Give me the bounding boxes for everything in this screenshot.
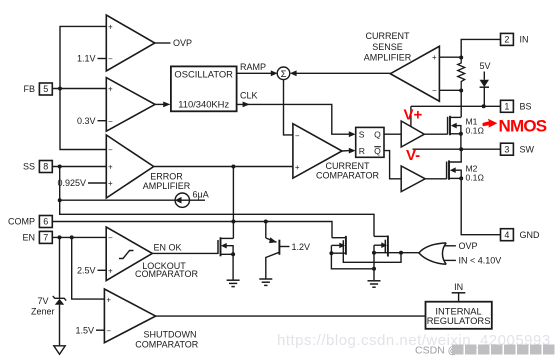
node COMP junction (231, 220, 235, 224)
transistor Q2 PNP 1.2V clamp (266, 222, 310, 279)
svg-text:ERROR: ERROR (150, 172, 183, 182)
current sense amplifier U7 (364, 31, 440, 101)
node PNP emitter junction (264, 220, 268, 224)
svg-text:+: + (108, 85, 113, 94)
svg-text:SHUTDOWN: SHUTDOWN (144, 329, 197, 339)
node EN junction zener (58, 235, 62, 239)
pin SS 8 (23, 161, 52, 173)
ground (227, 280, 240, 286)
pin COMP 6 (8, 216, 52, 228)
summing junction sigma (277, 67, 290, 80)
svg-text:COMP: COMP (8, 217, 35, 227)
svg-text:R: R (359, 146, 365, 156)
current source I1 6uA (175, 190, 209, 208)
wire EN to shutdown plus (72, 237, 105, 299)
transistor Q1 lockout pulldown (218, 237, 235, 279)
svg-text:−: − (108, 234, 113, 243)
ground (368, 281, 381, 287)
wire M1 source to SW rail (460, 134, 462, 149)
node diode BS junction (482, 104, 486, 108)
svg-text:CSDN @: CSDN @ (415, 345, 458, 357)
svg-text:4: 4 (504, 230, 509, 240)
svg-text:−: − (108, 55, 113, 64)
svg-text:SENSE: SENSE (372, 42, 403, 52)
svg-text:IN: IN (520, 35, 529, 45)
svg-text:CLK: CLK (240, 90, 258, 100)
wire FB to error amp minus (60, 89, 106, 150)
svg-text:0.1Ω: 0.1Ω (466, 126, 485, 136)
wire error amp output down to COMP line and pulldown drain (232, 167, 234, 239)
svg-text:Q: Q (374, 130, 381, 140)
wire CSA plus to sense resistor top (439, 56, 461, 58)
wire shutdown output to internal regulators (156, 315, 426, 317)
svg-text:AMPLIFIER: AMPLIFIER (143, 181, 191, 191)
annotation NMOS arrow (483, 119, 498, 128)
pin BS 1 (501, 100, 532, 112)
transistor Q4 cross pair right (372, 236, 403, 281)
svg-text:NMOS: NMOS (499, 117, 547, 136)
pin FB 5 (23, 83, 52, 95)
comparator U2 oscillator-enable (106, 78, 155, 132)
current comparator U5 (293, 124, 380, 181)
svg-text:+: + (108, 163, 113, 172)
value 1.5V (75, 325, 104, 335)
svg-text:2: 2 (504, 35, 509, 45)
ground negative rail arrow (54, 346, 65, 355)
oscillator U3 (171, 66, 237, 111)
svg-text:SW: SW (520, 144, 535, 154)
svg-text:CURRENT: CURRENT (326, 161, 371, 171)
svg-text:+: + (432, 53, 437, 62)
wire OR input OVP (444, 245, 456, 247)
svg-text:2.5V: 2.5V (77, 266, 96, 276)
svg-text:6: 6 (43, 217, 48, 227)
wire EN OK output to Q1 gate (152, 252, 218, 254)
svg-text:AMPLIFIER: AMPLIFIER (364, 52, 412, 62)
node EN junction shutdown (70, 235, 74, 239)
gate U10 OR (419, 243, 446, 264)
wire Q3 gate cross-couple (343, 251, 401, 263)
pin SW 3 (501, 143, 535, 155)
driver U8 high-side (401, 121, 424, 147)
wire RAMP (237, 62, 278, 76)
resistor R1 sense (458, 58, 465, 91)
svg-text:+: + (108, 179, 113, 188)
error amplifier U4 (106, 135, 190, 198)
transistor M1 (448, 116, 485, 136)
svg-text:COMPARATOR: COMPARATOR (316, 171, 380, 181)
svg-text:FB: FB (23, 84, 35, 94)
latch U6 SR (356, 127, 384, 157)
ground (259, 279, 272, 285)
svg-text:3: 3 (504, 144, 509, 154)
node IN supply tap (452, 282, 466, 302)
wire CLK (237, 90, 356, 137)
svg-text:6μA: 6μA (193, 190, 209, 200)
svg-text:OVP: OVP (173, 38, 192, 48)
wire EN pin to lockout minus (52, 236, 106, 238)
internal regulators U13 (426, 302, 492, 329)
wire FB pin to U2+ (52, 88, 106, 90)
diode D1 5V to BS (480, 72, 489, 107)
svg-text:COMPARATOR: COMPARATOR (135, 269, 199, 279)
svg-text:+: + (295, 163, 300, 172)
node error amp output junction (231, 165, 235, 169)
svg-text:−: − (295, 132, 300, 141)
wire SS vertical to 6uA line (60, 167, 374, 237)
svg-text:0.1Ω: 0.1Ω (466, 173, 485, 183)
value 0.3V (77, 116, 106, 126)
value 1.1V (77, 54, 106, 64)
node SS junction (58, 165, 62, 169)
transistor M2 (447, 149, 485, 182)
diode Z1 7V zener (31, 237, 66, 345)
svg-text:−: − (432, 86, 437, 95)
svg-text:Q: Q (374, 146, 381, 156)
wire FB to OVP+ (60, 26, 106, 88)
watermark csdn (415, 345, 555, 357)
pin IN 2 (501, 33, 529, 45)
transistor Q3 cross pair left (329, 236, 374, 269)
wire SW rail (413, 148, 501, 150)
driver U9 low-side (401, 166, 425, 192)
wire driver1 to M1 gate (424, 133, 447, 135)
svg-text:EN: EN (22, 233, 35, 243)
svg-text:8: 8 (43, 162, 48, 172)
node FB junction (58, 87, 62, 91)
svg-text:V+: V+ (404, 107, 423, 124)
svg-text:BS: BS (520, 102, 532, 112)
svg-text:−: − (108, 146, 113, 155)
wire sigma output to current comparator minus (284, 80, 293, 135)
svg-text:−: − (106, 326, 111, 335)
node SW junction (459, 147, 463, 151)
wire SS pin to error amp plus (52, 166, 106, 168)
svg-text:7V: 7V (37, 296, 48, 306)
value 2.5V (77, 266, 106, 276)
wire OR gate output (401, 252, 419, 254)
wire OVP output (155, 42, 171, 44)
wire COMP line (52, 222, 332, 238)
svg-text:IN: IN (454, 282, 463, 292)
wire error amp output to current comparator plus (154, 166, 293, 168)
pin GND 4 (501, 229, 541, 241)
svg-text:REGULATORS: REGULATORS (427, 315, 491, 326)
lockout comparator U11 (106, 227, 198, 281)
svg-text:S: S (359, 130, 365, 140)
svg-text:1.1V: 1.1V (77, 54, 96, 64)
node 6uA junction (58, 198, 62, 202)
svg-text:CURRENT: CURRENT (366, 31, 411, 41)
wire 6uA stub (60, 199, 205, 201)
svg-text:SS: SS (23, 162, 35, 172)
wire Qbar to driver2 (384, 151, 401, 179)
value 0.925V (57, 178, 106, 188)
wire CSA output into sigma (290, 70, 390, 76)
node sense resistor top (459, 56, 463, 60)
wire sense node to IN pin (461, 39, 500, 57)
pin EN 7 (22, 231, 52, 243)
svg-text:0.3V: 0.3V (77, 116, 96, 126)
comparator U1 OVP (106, 15, 155, 71)
svg-text:OVP: OVP (459, 241, 478, 251)
svg-text:Zener: Zener (31, 306, 55, 316)
node sense resistor bottom (459, 89, 463, 93)
wire current comparator output to R (342, 148, 356, 154)
svg-text:5V: 5V (479, 61, 490, 71)
svg-text:RAMP: RAMP (240, 62, 266, 72)
wire sense bottom to M1 drain (460, 91, 462, 118)
svg-text:110/340KHz: 110/340KHz (178, 99, 229, 110)
wire CSA minus to sense resistor bottom (439, 89, 461, 91)
wire M2 source to GND pin (461, 178, 500, 234)
svg-text:0.925V: 0.925V (57, 178, 86, 188)
svg-text:IN < 4.10V: IN < 4.10V (459, 256, 502, 266)
svg-text:GND: GND (520, 230, 541, 240)
svg-text:OSCILLATOR: OSCILLATOR (174, 69, 233, 80)
wire Q to driver1 (384, 133, 401, 135)
svg-text:Σ: Σ (281, 69, 287, 80)
svg-text:COMPARATOR: COMPARATOR (135, 339, 199, 349)
wire V+ rail into driver1 (410, 106, 412, 126)
svg-text:EN OK: EN OK (154, 242, 182, 252)
wire U2 output to oscillator (155, 103, 164, 105)
wire BS rail (411, 105, 501, 107)
shutdown comparator U12 (104, 289, 198, 349)
svg-text:1.5V: 1.5V (75, 325, 94, 335)
svg-text:−: − (108, 117, 113, 126)
svg-text:+: + (106, 295, 111, 304)
wire OR input IN comparator (444, 259, 456, 261)
svg-text:5: 5 (43, 84, 48, 94)
wire driver2 to M2 gate (425, 178, 446, 180)
svg-text:+: + (108, 23, 113, 32)
svg-text:7: 7 (43, 233, 48, 243)
svg-text:V-: V- (406, 147, 420, 164)
svg-text:1.2V: 1.2V (292, 242, 311, 252)
svg-text:1: 1 (504, 102, 509, 112)
svg-text:+: + (108, 267, 113, 276)
